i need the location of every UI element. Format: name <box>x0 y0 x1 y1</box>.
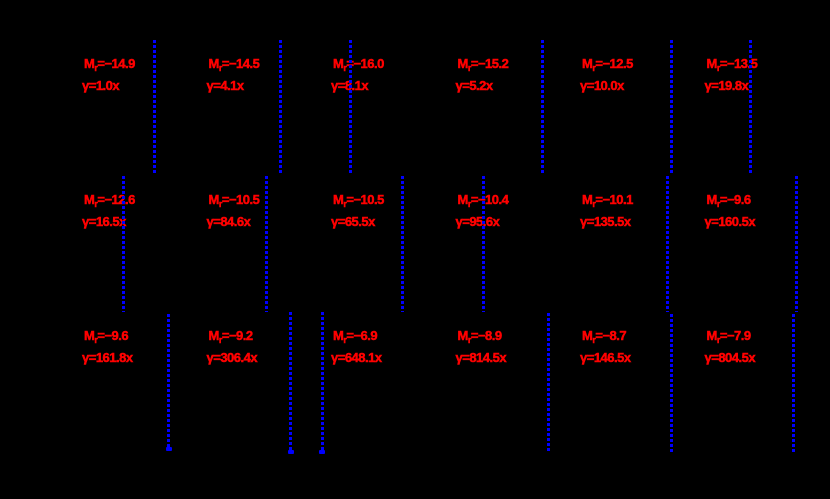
panel row1 col1 gamma label <box>82 79 119 92</box>
panel row1 col3 blue dashed vertical line <box>349 40 352 174</box>
panel row2 col1 blue dashed vertical line <box>122 176 125 312</box>
panel row3 col3 blue dashed vertical line <box>321 312 324 452</box>
panel row2 col4 M_r label <box>458 193 509 211</box>
panel row2 col1 gamma label <box>82 215 126 228</box>
panel row3 col2 M_r label <box>209 329 253 347</box>
panel row2 col4 blue dashed vertical line <box>482 176 485 312</box>
panel row1 col4 gamma label <box>456 79 493 92</box>
panel row2 col5 blue dashed vertical line <box>666 176 669 312</box>
panel row2 col3 gamma label <box>331 215 375 228</box>
panel row3 col6 M_r label <box>707 329 751 347</box>
panel row2 col2 blue dashed vertical line <box>265 176 268 312</box>
panel row1 col3 M_r label <box>333 57 384 75</box>
panel row1 col6 gamma label <box>705 79 749 92</box>
panel row1 col2 blue dashed vertical line <box>279 40 282 174</box>
panel row3 col5 blue dashed vertical line <box>670 314 673 452</box>
panel row3 col1 line end marker <box>166 447 172 451</box>
panel row3 col3 M_r label <box>333 329 377 347</box>
panel row2 col3 blue dashed vertical line <box>401 176 404 312</box>
panel row1 col4 M_r label <box>458 57 509 75</box>
panel row1 col5 gamma label <box>580 79 624 92</box>
panel row3 col4 gamma label <box>456 351 507 364</box>
panel row1 col6 blue dashed vertical line <box>749 40 752 174</box>
panel row3 col1 gamma label <box>82 351 133 364</box>
panel row3 col5 M_r label <box>582 329 626 347</box>
panel row2 col1 M_r label <box>84 193 135 211</box>
panel row3 col2 blue dashed vertical line <box>289 312 292 452</box>
panel row1 col1 blue dashed vertical line <box>153 40 156 174</box>
panel row2 col6 M_r label <box>707 193 751 211</box>
panel row1 col2 gamma label <box>207 79 244 92</box>
panel row2 col3 M_r label <box>333 193 384 211</box>
panel row3 col1 M_r label <box>84 329 128 347</box>
panel row3 col4 blue dashed vertical line <box>547 313 550 451</box>
panel row2 col6 blue dashed vertical line <box>795 176 798 312</box>
panel row1 col2 M_r label <box>209 57 260 75</box>
panel row3 col1 blue dashed vertical line <box>167 314 170 449</box>
panel row2 col2 M_r label <box>209 193 260 211</box>
panel row3 col2 line end marker <box>288 450 294 454</box>
panel row2 col5 M_r label <box>582 193 633 211</box>
panel row3 col3 line end marker <box>319 450 325 454</box>
panel row1 col5 M_r label <box>582 57 633 75</box>
panel row3 col6 gamma label <box>705 351 756 364</box>
panel row3 col4 M_r label <box>458 329 502 347</box>
panel row1 col4 blue dashed vertical line <box>541 40 544 174</box>
panel row1 col6 M_r label <box>707 57 758 75</box>
panel row3 col2 gamma label <box>207 351 258 364</box>
panel row2 col2 gamma label <box>207 215 251 228</box>
panel row2 col6 gamma label <box>705 215 756 228</box>
panel row3 col3 gamma label <box>331 351 382 364</box>
panel row1 col1 M_r label <box>84 57 135 75</box>
panel row3 col6 blue dashed vertical line <box>792 314 795 452</box>
panel row1 col5 blue dashed vertical line <box>670 40 673 174</box>
panel row1 col3 gamma label <box>331 79 368 92</box>
panel row2 col5 gamma label <box>580 215 631 228</box>
panel row3 col5 gamma label <box>580 351 631 364</box>
panel row2 col4 gamma label <box>456 215 500 228</box>
